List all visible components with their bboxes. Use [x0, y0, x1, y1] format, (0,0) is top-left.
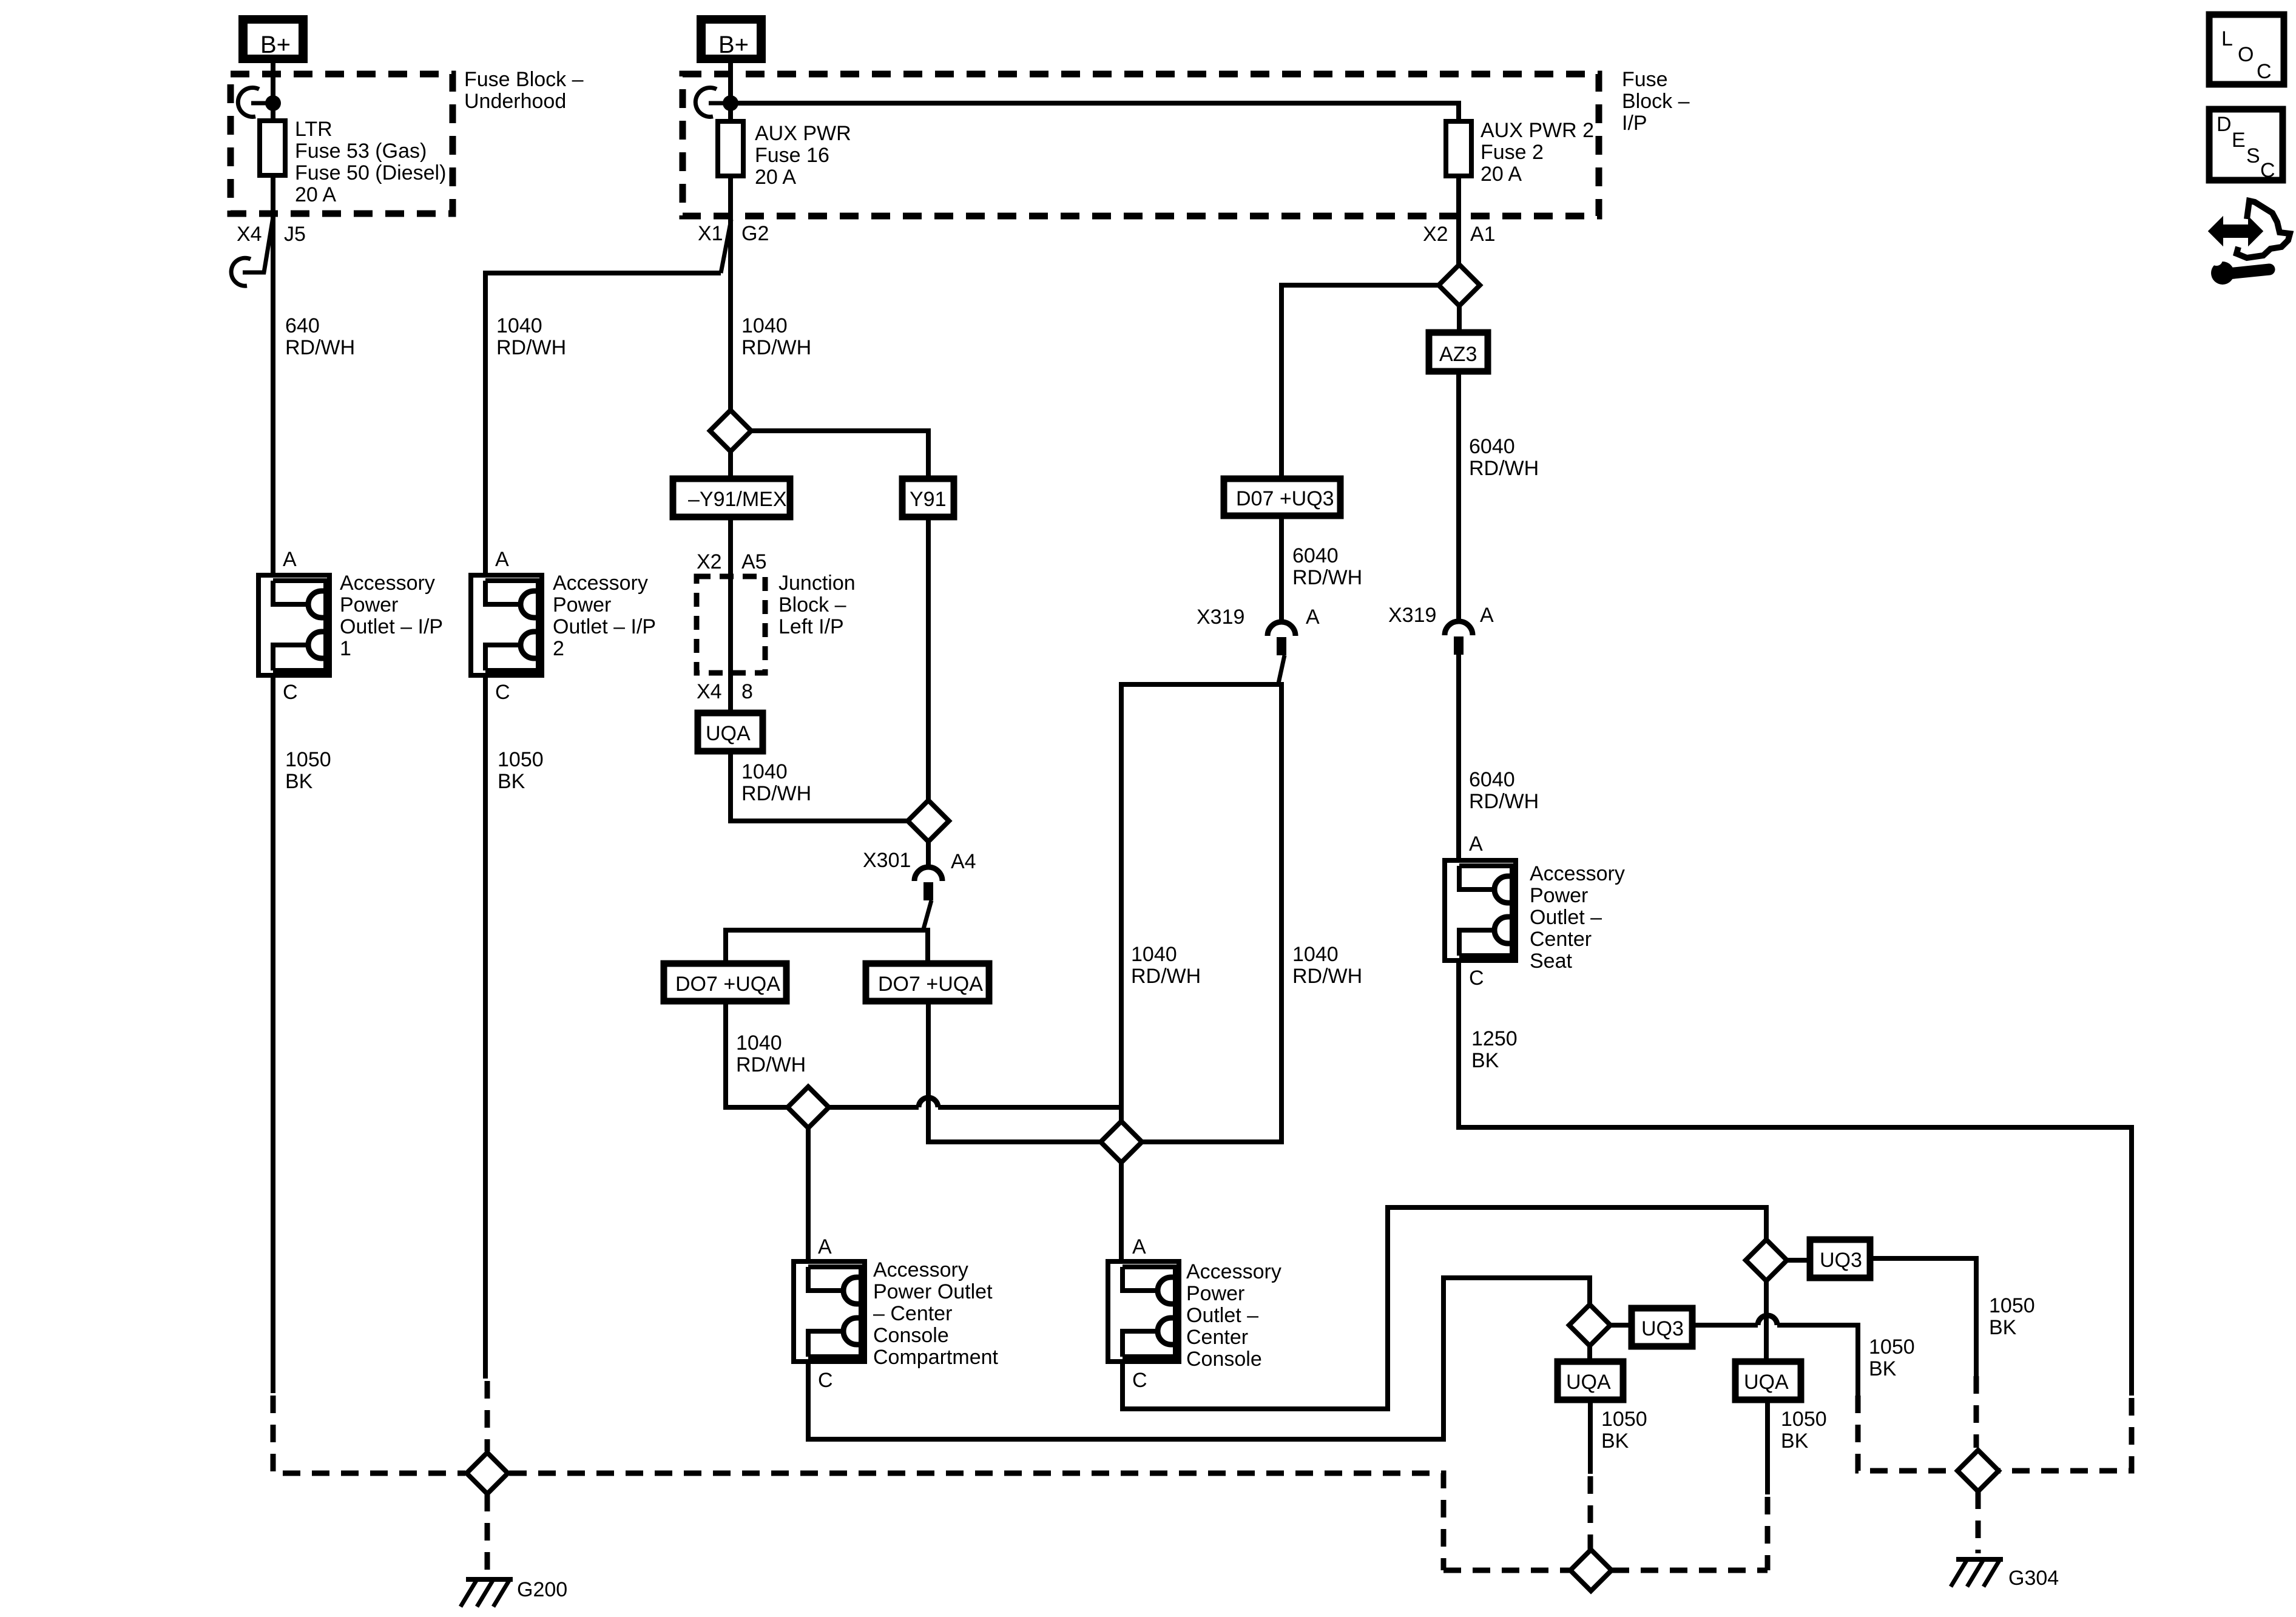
svg-text:G304: G304 — [2008, 1567, 2059, 1590]
label 1040 RD/WH x1848 wire — [1131, 943, 1201, 988]
label Accessory Power Outlet - Center Console — [1186, 1260, 1281, 1371]
svg-text:Compartment: Compartment — [873, 1346, 999, 1369]
svg-text:Power: Power — [1186, 1282, 1244, 1305]
svg-text:1250: 1250 — [1471, 1027, 1518, 1050]
label LTR fuse — [295, 118, 446, 206]
svg-text:Outlet –: Outlet – — [1530, 906, 1602, 929]
fuse AUX PWR Fuse 16 20A — [718, 121, 743, 176]
wire 1050 BK from APO2 C down — [483, 675, 488, 1379]
splice diamond feeding APO center console compartment — [788, 1087, 829, 1128]
svg-text:X319: X319 — [1388, 604, 1436, 627]
option box UQ3 (right) — [1810, 1240, 1870, 1278]
svg-text:DO7 +UQA: DO7 +UQA — [675, 973, 780, 996]
svg-text:1040: 1040 — [741, 314, 788, 337]
svg-text:Power: Power — [340, 593, 398, 616]
connector X301/A4 (arc + pin) — [914, 867, 942, 929]
svg-text:Accessory: Accessory — [340, 572, 435, 595]
svg-text:AUX PWR: AUX PWR — [755, 122, 851, 145]
svg-text:1050: 1050 — [1781, 1408, 1827, 1431]
splice diamond feeding APO center console — [1101, 1121, 1142, 1163]
label X319 | A (right) — [1388, 604, 1494, 627]
svg-text:D: D — [2217, 113, 2232, 136]
svg-text:RD/WH: RD/WH — [741, 782, 811, 805]
fuse AUX PWR 2 Fuse 2 20A — [1446, 121, 1471, 176]
wire diamond x1332 down to APO center console compartment — [806, 1128, 811, 1261]
Fuse Block - I/P (dashed outline) — [683, 74, 1599, 216]
svg-text:6040: 6040 — [1469, 768, 1515, 791]
component Accessory Power Outlet - I/P 2 — [471, 575, 542, 675]
svg-text:X319: X319 — [1197, 606, 1244, 629]
legend icon: double arrow — [2210, 220, 2261, 242]
svg-text:Outlet –: Outlet – — [1186, 1304, 1258, 1327]
svg-text:Y91: Y91 — [910, 488, 947, 511]
label 1050 BK x3257 branch — [1989, 1294, 2035, 1339]
svg-text:–Y91/MEX: –Y91/MEX — [688, 488, 787, 511]
svg-text:6040: 6040 — [1469, 435, 1515, 458]
svg-text:B+: B+ — [718, 32, 749, 58]
DESC legend box — [2209, 109, 2283, 182]
label 1050 BK UQA1 — [1601, 1408, 1647, 1453]
option box UQ3 (lower left) — [1632, 1308, 1692, 1346]
svg-text:BK: BK — [1601, 1430, 1629, 1453]
connector X4/J5 (slant and clip) — [231, 217, 273, 286]
svg-text:J5: J5 — [284, 223, 306, 246]
svg-text:Accessory: Accessory — [1530, 862, 1625, 885]
wire 1050 BK below UQA1 — [1588, 1400, 1593, 1474]
svg-text:UQ3: UQ3 — [1820, 1249, 1862, 1272]
svg-text:RD/WH: RD/WH — [285, 336, 355, 359]
svg-text:O: O — [2238, 43, 2254, 66]
label X319 | A (left) — [1197, 606, 1320, 629]
svg-text:UQA: UQA — [1744, 1371, 1789, 1394]
svg-text:20 A: 20 A — [755, 166, 796, 189]
svg-text:G2: G2 — [741, 222, 769, 245]
label X1 | G2 — [698, 222, 769, 245]
dashed x3257 down to G304 diamond — [1974, 1376, 1979, 1448]
connector X319/A left (arc + pin) — [1268, 622, 1295, 683]
power terminal B+ (middle, feeds AUX PWR fuses) — [697, 15, 766, 63]
svg-text:UQA: UQA — [706, 722, 751, 745]
label 1040 RD/WH col3 — [741, 314, 811, 359]
svg-text:LTR: LTR — [295, 118, 333, 141]
wire diamond2 down to UQA box 2 — [1764, 1281, 1769, 1362]
svg-text:Block –: Block – — [1622, 90, 1690, 113]
svg-text:A4: A4 — [951, 850, 976, 873]
svg-text:Fuse 50 (Diesel): Fuse 50 (Diesel) — [295, 161, 446, 184]
Y91 branch wire from diamond right to Y91 box — [751, 431, 928, 479]
splice dot col3 — [723, 95, 738, 111]
label Fuse Block - Underhood — [464, 68, 584, 113]
svg-text:UQ3: UQ3 — [1641, 1317, 1684, 1340]
svg-text:A: A — [1306, 606, 1320, 629]
label Junction Block - Left I/P — [778, 572, 856, 638]
wire CCC ground route to UQ3 diamond 1 — [808, 1278, 1590, 1439]
svg-text:A: A — [495, 548, 509, 571]
svg-text:1040: 1040 — [736, 1031, 782, 1055]
label Accessory Power Outlet - I/P 1 — [340, 572, 443, 660]
svg-text:BK: BK — [1869, 1357, 1897, 1380]
svg-text:A1: A1 — [1470, 223, 1496, 246]
svg-text:X2: X2 — [697, 550, 722, 573]
svg-text:640: 640 — [285, 314, 320, 337]
wire diamond to connector X301 — [926, 842, 931, 868]
label 6040 RD/WH col5 lower — [1469, 768, 1539, 813]
svg-text:Power Outlet: Power Outlet — [873, 1280, 993, 1303]
svg-text:Fuse Block –: Fuse Block – — [464, 68, 584, 91]
svg-text:C: C — [818, 1369, 833, 1392]
label 1040 RD/WH x2112 wire — [1292, 943, 1362, 988]
svg-text:20 A: 20 A — [1481, 163, 1522, 186]
svg-text:2: 2 — [553, 637, 564, 660]
svg-text:RD/WH: RD/WH — [1292, 566, 1362, 589]
svg-text:D07 +UQ3: D07 +UQ3 — [1236, 487, 1334, 510]
svg-text:Power: Power — [1530, 884, 1588, 907]
dashed wire below G200 diamond — [485, 1494, 490, 1575]
wire diamond x1848 down to APO center console — [1119, 1163, 1124, 1261]
option box UQA (bottom left) — [1558, 1362, 1623, 1400]
svg-text:Fuse 16: Fuse 16 — [755, 144, 829, 167]
svg-text:Accessory: Accessory — [1186, 1260, 1281, 1283]
component Accessory Power Outlet - Center Console Compartment — [794, 1261, 865, 1362]
wire 1040 RD/WH from right DO7 box down, right to diamond at x1848 — [928, 1001, 1101, 1142]
label Fuse Block - I/P — [1622, 68, 1690, 135]
fuse LTR (Fuse 53 Gas / Fuse 50 Diesel, 20 A) — [260, 121, 285, 175]
dashed ground bus from G200 to right — [509, 1473, 1443, 1570]
label X4 | J5 — [237, 223, 306, 246]
svg-text:A: A — [818, 1235, 832, 1258]
option box UQA (bottom right) — [1735, 1362, 1801, 1400]
svg-text:20 A: 20 A — [295, 183, 336, 206]
svg-text:BK: BK — [1781, 1430, 1809, 1453]
svg-text:RD/WH: RD/WH — [1131, 965, 1201, 988]
svg-text:X4: X4 — [237, 223, 262, 246]
svg-text:RD/WH: RD/WH — [741, 336, 811, 359]
ground splice diamond on lower bus — [1570, 1550, 1612, 1591]
label X4 | 8 (junction block out) — [697, 680, 753, 703]
svg-text:E: E — [2232, 129, 2246, 152]
wire AUX PWR 2 fuse down through X2/A1 to diamond — [1456, 176, 1461, 265]
splice diamond above AZ3 — [1439, 265, 1480, 306]
svg-text:1050: 1050 — [1869, 1335, 1915, 1359]
svg-text:A: A — [1480, 604, 1494, 627]
svg-text:1050: 1050 — [285, 748, 331, 771]
svg-text:RD/WH: RD/WH — [1469, 457, 1539, 480]
splice diamond UQ3 2 — [1746, 1240, 1787, 1281]
connector X319/A right (arc + pin) — [1445, 621, 1473, 655]
wire X301 down to DO7 +UQA right box, with branch left — [925, 928, 930, 964]
dashed ground wire col2 down to G200 splice — [485, 1381, 490, 1451]
wire AUX PWR fuse to connector X1/G2 — [728, 176, 733, 410]
svg-text:Fuse 53 (Gas): Fuse 53 (Gas) — [295, 140, 427, 163]
wire from AZ3 diamond left to col4 down to D07 +UQ3 — [1281, 285, 1439, 479]
svg-text:Center: Center — [1530, 928, 1592, 951]
wire diamond to AZ3 box — [1457, 306, 1462, 333]
svg-text:RD/WH: RD/WH — [1292, 965, 1362, 988]
component Accessory Power Outlet - Center Console — [1108, 1261, 1179, 1362]
option box AZ3 — [1429, 333, 1488, 371]
G200 ground splice diamond — [467, 1453, 508, 1494]
label X2 | A5 (junction block in) — [697, 550, 767, 573]
label X2 | A1 — [1423, 223, 1496, 246]
svg-text:C: C — [1469, 967, 1484, 990]
Fuse Block - Underhood (dashed outline) — [231, 74, 453, 214]
svg-text:X301: X301 — [863, 849, 911, 872]
wire -Y91/MEX down to junction block X2/A5 — [728, 517, 733, 576]
svg-text:C: C — [2257, 60, 2272, 83]
wire 1250 BK from center seat C, right and down far right — [1459, 960, 2132, 1396]
label AUX PWR fuse — [755, 122, 851, 189]
svg-text:C: C — [495, 681, 510, 704]
svg-text:C: C — [2260, 159, 2275, 182]
svg-text:X2: X2 — [1423, 223, 1448, 246]
svg-text:RD/WH: RD/WH — [736, 1053, 806, 1076]
svg-text:BK: BK — [1989, 1316, 2017, 1339]
wire 1050 BK from APO1 C down — [271, 675, 275, 1393]
wire 1040 RD/WH from left DO7 box down, right to diamond — [726, 1001, 788, 1107]
wire 6040 RD/WH from AZ3 down to connector X319 (right) — [1456, 371, 1461, 622]
dashed wire below G304 diamond — [1976, 1491, 1981, 1553]
svg-text:Accessory: Accessory — [873, 1258, 968, 1281]
svg-text:1040: 1040 — [1131, 943, 1177, 966]
splice dot col1 — [265, 95, 281, 111]
Junction Block - Left I/P dashed box — [697, 576, 765, 673]
option box Y91 — [902, 479, 954, 517]
horizontal branch y1128 from X319 to x1848 — [1121, 682, 1279, 687]
svg-text:S: S — [2246, 144, 2260, 167]
label 6040 RD/WH col5 upper — [1469, 435, 1539, 480]
component Accessory Power Outlet - Center Seat — [1445, 860, 1516, 960]
svg-text:AZ3: AZ3 — [1439, 343, 1477, 366]
svg-text:C: C — [283, 681, 298, 704]
label 640 RD/WH — [285, 314, 355, 359]
wire diamond right with hop over x1530, to tee at x1848 — [829, 1098, 1121, 1107]
svg-text:A: A — [1469, 832, 1483, 856]
option box D07 +UQ3 — [1224, 479, 1340, 516]
svg-text:Fuse: Fuse — [1622, 68, 1668, 91]
ground symbol G200 — [461, 1579, 513, 1607]
svg-text:1050: 1050 — [1989, 1294, 2035, 1317]
dashed wire UQA2 down to lower dashed bus — [1765, 1497, 1771, 1570]
svg-text:G200: G200 — [517, 1578, 567, 1601]
svg-text:6040: 6040 — [1292, 544, 1339, 567]
legend icon: connector outline (hand) — [2237, 201, 2290, 258]
option box -Y91/MEX — [673, 479, 790, 517]
label 1040 RD/WH below UQA — [741, 760, 811, 805]
svg-text:A5: A5 — [741, 550, 767, 573]
lower dashed bus through ground diamond to UQA2 — [1443, 1568, 1768, 1573]
svg-text:1050: 1050 — [498, 748, 544, 771]
svg-text:Seat: Seat — [1530, 950, 1572, 973]
wire 6040 RD/WH from D07 box to connector X319 (left) — [1279, 516, 1284, 623]
svg-text:Block –: Block – — [778, 593, 846, 616]
vertical wire x1848 from y1128 branch down to diamond — [1119, 682, 1124, 1121]
wire 1040 RD/WH from UQA down and right to diamond — [731, 751, 908, 821]
svg-text:Accessory: Accessory — [553, 572, 648, 595]
svg-text:1: 1 — [340, 637, 351, 660]
wire branch left at y1533 to DO7 +UQA left box — [726, 930, 928, 964]
splice diamond above X301 — [908, 800, 949, 842]
svg-text:L: L — [2221, 27, 2233, 50]
svg-text:Junction: Junction — [778, 572, 856, 595]
label 1050 BK col1 — [285, 748, 331, 793]
wire diamond to -Y91/MEX box — [728, 451, 733, 479]
label 1250 BK — [1471, 1027, 1518, 1072]
svg-text:X4: X4 — [697, 680, 722, 703]
svg-text:B+: B+ — [260, 32, 291, 58]
label 1040 RD/WH col2 — [496, 314, 566, 359]
wire diamond1 down to UQA box 1 — [1587, 1346, 1592, 1362]
svg-text:Left I/P: Left I/P — [778, 615, 844, 638]
wire branch from X1/G2 to col2 (1040 RD/WH) — [485, 273, 721, 575]
svg-text:1040: 1040 — [1292, 943, 1339, 966]
wire diamond1 to UQ3 box — [1610, 1323, 1632, 1328]
wire diamond2 to UQ3 box 2 — [1787, 1258, 1810, 1263]
label X301 | A4 — [863, 849, 976, 873]
label 1050 BK x3062 branch — [1869, 1335, 1915, 1380]
svg-text:8: 8 — [741, 680, 753, 703]
dashed ground x3062 to G304 bus — [1858, 1396, 1957, 1471]
dashed ground far right leg to G304 — [1999, 1398, 2132, 1471]
svg-text:BK: BK — [498, 770, 525, 793]
option box DO7 +UQA (left) — [664, 964, 786, 1001]
svg-text:1040: 1040 — [741, 760, 788, 783]
splice diamond UQ3 1 — [1569, 1305, 1610, 1346]
clip symbol at col1 dot — [238, 87, 273, 116]
option box DO7 +UQA (right) — [866, 964, 989, 1001]
svg-text:A: A — [283, 548, 297, 571]
svg-text:RD/WH: RD/WH — [496, 336, 566, 359]
label 1050 BK UQA2 — [1781, 1408, 1827, 1453]
connector X1/G2 slant — [721, 220, 731, 273]
wire Y91 box down to splice diamond above X301 — [926, 517, 931, 800]
dashed wire UQA1 to ground diamond — [1588, 1476, 1593, 1550]
wire B+ middle down to AUX PWR fuse — [728, 63, 733, 121]
wire 6040 RD/WH down to APO center seat — [1456, 655, 1461, 860]
wire from UQ3 box right with hop over x2913, to right branch — [1692, 1315, 1858, 1396]
svg-text:UQA: UQA — [1566, 1371, 1611, 1394]
option box UQA (col3) — [698, 713, 763, 751]
wire B+ left down to LTR fuse — [271, 63, 275, 121]
svg-text:Fuse 2: Fuse 2 — [1481, 141, 1544, 164]
label Accessory Power Outlet - I/P 2 — [553, 572, 656, 660]
LOC legend box — [2209, 15, 2284, 84]
svg-text:BK: BK — [1471, 1049, 1499, 1072]
svg-text:Underhood: Underhood — [464, 90, 566, 113]
label Accessory Power Outlet - Center Seat — [1530, 862, 1625, 973]
dashed ground wire col1 to G200 bus — [273, 1396, 465, 1473]
svg-text:A: A — [1132, 1235, 1146, 1258]
svg-text:Console: Console — [1186, 1348, 1262, 1371]
wire feed to AUX PWR 2 fuse (top horizontal) — [731, 103, 1459, 121]
wire UQ3 box 2 right and down x3257 — [1870, 1258, 1976, 1376]
svg-text:RD/WH: RD/WH — [1469, 790, 1539, 813]
component Accessory Power Outlet - I/P 1 — [258, 575, 329, 675]
svg-text:AUX PWR 2: AUX PWR 2 — [1481, 119, 1594, 142]
wire through junction block — [728, 576, 733, 713]
label 1040 RD/WH below left DO7 — [736, 1031, 806, 1076]
ground symbol G304 — [1951, 1559, 2003, 1587]
label 6040 RD/WH col4 — [1292, 544, 1362, 589]
svg-text:Center: Center — [1186, 1326, 1248, 1349]
legend icon: wrench — [2209, 254, 2269, 285]
wire CC ground route to UQ3 diamond 2 — [1123, 1207, 1766, 1409]
svg-text:Outlet – I/P: Outlet – I/P — [340, 615, 443, 638]
svg-text:X1: X1 — [698, 222, 723, 245]
svg-text:1040: 1040 — [496, 314, 542, 337]
svg-text:DO7 +UQA: DO7 +UQA — [878, 973, 983, 996]
svg-text:BK: BK — [285, 770, 313, 793]
wire diamond right to col4 riser — [1142, 682, 1281, 1142]
label 1050 BK col2 — [498, 748, 544, 793]
svg-text:Power: Power — [553, 593, 611, 616]
svg-text:Outlet – I/P: Outlet – I/P — [553, 615, 656, 638]
svg-text:– Center: – Center — [873, 1302, 952, 1325]
svg-text:Console: Console — [873, 1324, 949, 1347]
label AUX PWR 2 fuse — [1481, 119, 1594, 186]
svg-text:I/P: I/P — [1622, 112, 1647, 135]
label Accessory Power Outlet - Center Console Compartment — [873, 1258, 999, 1369]
power terminal B+ (left, feeds LTR fuse) — [238, 15, 308, 63]
splice diamond col3 (to Y91 branch) — [710, 410, 751, 451]
wire 1050 BK below UQA2 — [1765, 1400, 1770, 1494]
svg-text:C: C — [1132, 1369, 1147, 1392]
clip symbol at col3 dot — [695, 87, 731, 116]
svg-text:1050: 1050 — [1601, 1408, 1647, 1431]
G304 ground splice diamond — [1957, 1450, 1999, 1491]
wire LTR fuse down to connector X4/J5 — [271, 175, 275, 575]
